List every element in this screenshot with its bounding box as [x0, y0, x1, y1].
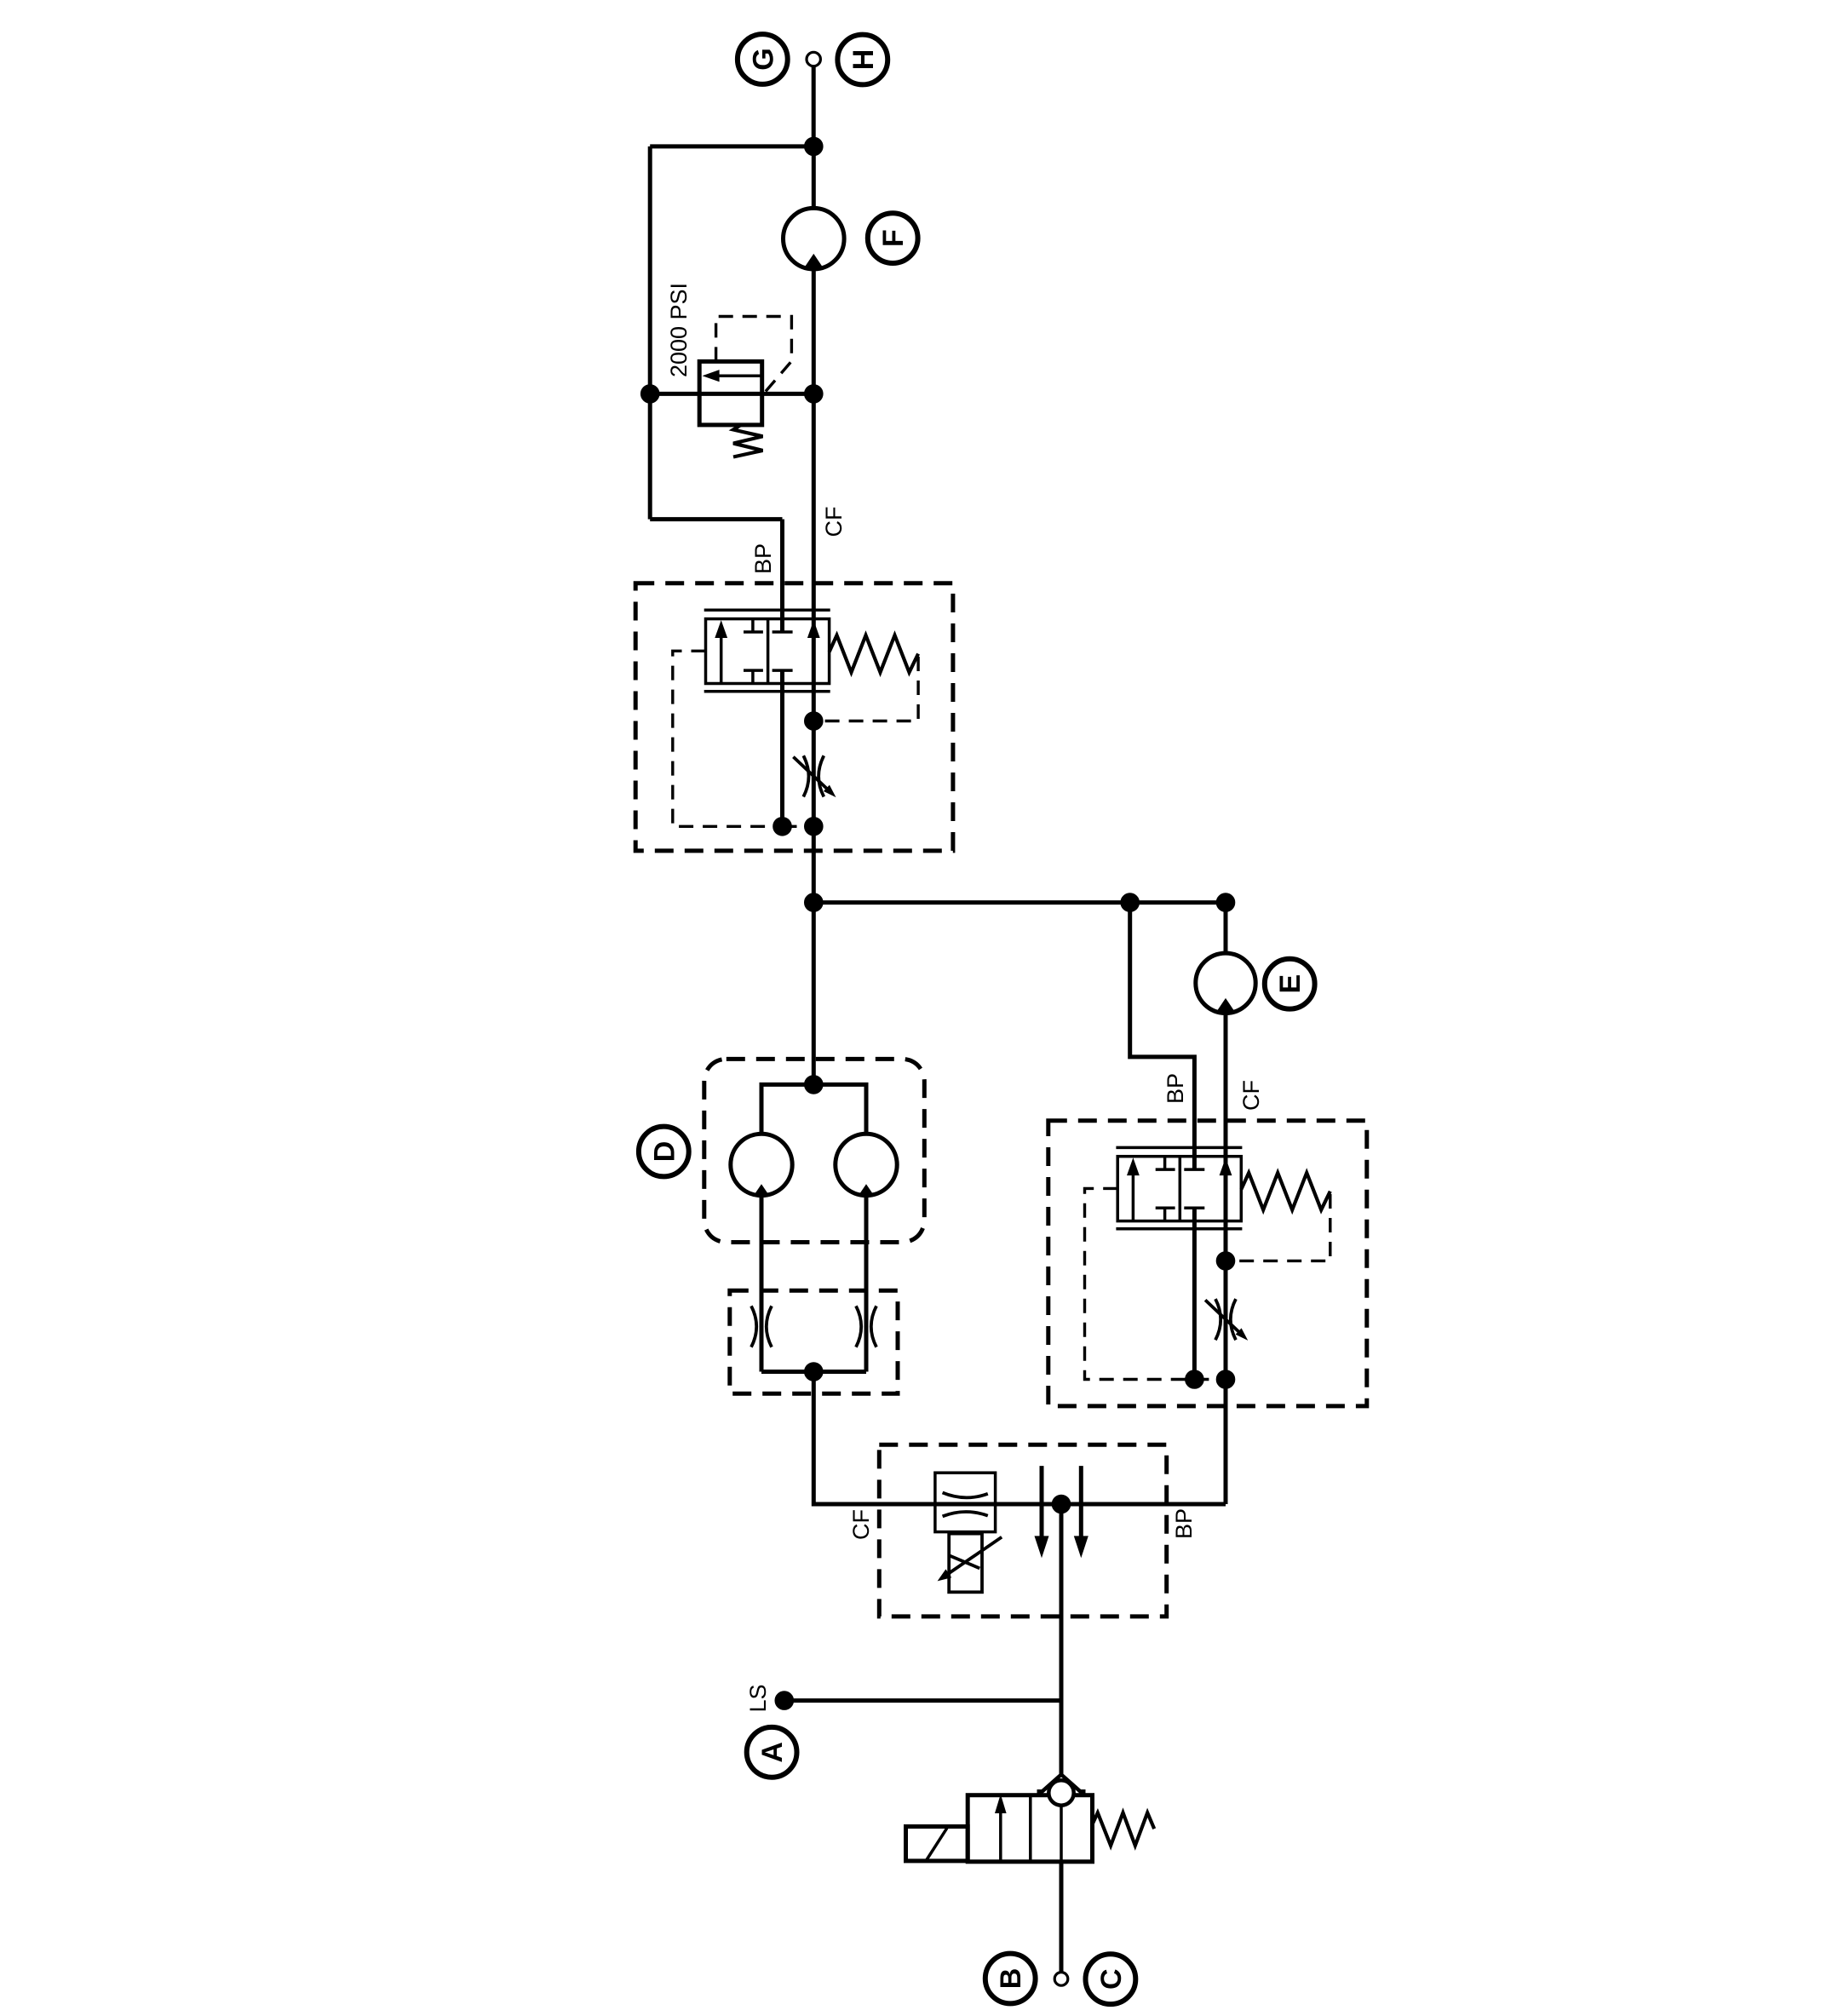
node LS tap	[777, 1693, 792, 1709]
orifice pair enclosure dashed box	[730, 1290, 898, 1393]
wire orifice outlet collector	[761, 1370, 866, 1374]
component label D	[639, 1127, 689, 1177]
solenoid valve envelope divider	[1029, 1795, 1032, 1862]
check valve ball	[1048, 1780, 1073, 1805]
node collector	[807, 1364, 822, 1380]
svg-text:CF: CF	[821, 507, 847, 537]
wire collector down elbow	[813, 1372, 1226, 1505]
node divider outlet	[1054, 1496, 1069, 1512]
valve F right cell BP port bar bottom	[773, 669, 793, 672]
wire CF line pump E to valve E	[1224, 1014, 1228, 1505]
fixed orifice left arcs	[751, 1306, 772, 1347]
valve E CF position arrow	[1220, 1157, 1232, 1175]
wire bypass branch elbow to BP	[650, 517, 782, 521]
cartridge orifice square	[935, 1473, 996, 1531]
node divider D inlet	[807, 1077, 822, 1093]
valve E left pilot dashed	[1085, 1188, 1188, 1379]
valve F CF position arrow	[807, 620, 820, 638]
variable orifice F arrow	[793, 757, 836, 798]
valve F body	[706, 619, 830, 684]
node relief left	[642, 387, 658, 402]
motor D left circle	[731, 1134, 792, 1195]
motor D right flow triangle	[858, 1184, 875, 1197]
wire BP drop into valve F upper	[780, 520, 784, 632]
valve E right cell BP port bar bottom	[1184, 1206, 1204, 1209]
svg-text:G: G	[747, 48, 779, 70]
svg-text:A: A	[756, 1742, 789, 1763]
cartridge orifice lower arc	[943, 1512, 988, 1516]
fixed orifice right arcs	[856, 1306, 876, 1347]
pump E flow triangle	[1216, 998, 1235, 1013]
valve E bottom pilot dashed link	[1194, 1378, 1226, 1381]
valve E left cell bottom blocked port	[1156, 1208, 1175, 1221]
wire down to flow divider D	[812, 903, 816, 1085]
wire divider outlet down to check valve	[1060, 1504, 1064, 1775]
node BP bottom valve E	[1187, 1372, 1203, 1387]
valve E left position arrow	[1127, 1157, 1140, 1220]
valve E spring	[1241, 1173, 1330, 1210]
node CF bottom valve E	[1218, 1372, 1233, 1387]
outlet arrow left	[1035, 1466, 1049, 1558]
variable orifice F arcs	[803, 755, 824, 796]
port label H	[837, 35, 887, 85]
port label A	[747, 1727, 797, 1778]
valve E pilot node on CF	[1218, 1254, 1233, 1269]
wire tee to bypass branch	[650, 144, 813, 148]
valve F proportional bar bottom	[704, 690, 830, 693]
wire motor D left outlet	[760, 1196, 764, 1372]
wire BP branch elbow to valve E	[1130, 903, 1195, 1170]
solenoid actuator diagonal	[927, 1828, 947, 1860]
valve F left pilot dashed	[673, 651, 776, 826]
valve E right cell BP port bar top	[1184, 1168, 1204, 1171]
valve F pilot node on CF	[807, 714, 822, 729]
wire bypass branch vertical	[648, 146, 652, 520]
pump F circle	[784, 208, 845, 269]
pump F flow triangle	[804, 254, 823, 268]
pump E circle	[1196, 953, 1255, 1013]
junction node at top tee	[807, 139, 822, 154]
port label G	[738, 34, 788, 84]
relief valve pilot dashed line	[716, 317, 792, 394]
component label F	[868, 213, 918, 263]
adjuster cross stroke	[950, 1556, 979, 1569]
port label B	[985, 1954, 1036, 2004]
valve F right cell BP port bar top	[773, 630, 793, 634]
motor D left flow triangle	[753, 1184, 770, 1197]
solenoid valve return spring	[1093, 1812, 1155, 1846]
valve F envelope divider	[767, 619, 770, 684]
valve F spring	[830, 635, 919, 673]
solenoid actuator box	[906, 1827, 968, 1861]
valve F left cell top blocked port	[744, 619, 763, 632]
svg-text:2000 PSI: 2000 PSI	[666, 283, 692, 377]
relief valve spring	[733, 425, 763, 457]
compensator E enclosure dashed box	[1048, 1121, 1367, 1406]
valve F left cell bottom blocked port	[744, 670, 763, 683]
wire motor D right outlet	[864, 1196, 869, 1372]
svg-text:LS: LS	[745, 1684, 771, 1712]
wire divider D header	[761, 1084, 866, 1134]
wire from port H down to junction	[812, 66, 816, 146]
cartridge orifice upper arc	[943, 1493, 988, 1498]
valve E proportional bar top	[1116, 1146, 1242, 1150]
valve F left position arrow	[715, 620, 727, 682]
solenoid valve right cell passage	[1060, 1804, 1063, 1862]
wire through relief valve	[650, 392, 813, 396]
node branch to pump E	[1218, 895, 1233, 910]
valve F proportional bar top	[704, 609, 830, 612]
valve E spring pilot dashed	[1232, 1194, 1330, 1261]
valve F spring pilot dashed	[821, 657, 919, 721]
node BP bottom valve F	[775, 819, 790, 835]
port label C	[1086, 1954, 1136, 2004]
wire main distribution line	[813, 900, 1226, 905]
wire junction to pump F	[812, 146, 816, 209]
wire CF main line from pump F down	[812, 269, 816, 903]
outlet arrow right	[1074, 1466, 1088, 1558]
component label E	[1265, 959, 1315, 1009]
valve E left cell top blocked port	[1156, 1157, 1175, 1169]
adjuster arrow	[938, 1537, 1002, 1582]
svg-text:CF: CF	[848, 1509, 874, 1540]
node main junction below valve F	[807, 895, 822, 910]
wire pump E feed	[1224, 903, 1228, 954]
priority divider enclosure dashed box	[879, 1445, 1166, 1617]
valve E envelope divider	[1179, 1157, 1182, 1221]
variable orifice E arrow	[1205, 1300, 1248, 1341]
check valve seat caret	[1037, 1775, 1086, 1792]
wire LS sense line	[784, 1698, 1061, 1703]
port H open circle	[807, 52, 820, 66]
svg-text:BP: BP	[750, 543, 776, 574]
svg-text:B: B	[995, 1968, 1027, 1990]
wire BP valve F lower	[780, 670, 784, 826]
wire solenoid valve outlet	[1060, 1862, 1064, 1973]
svg-text:H: H	[847, 49, 880, 71]
svg-text:F: F	[877, 229, 910, 247]
wire BP drop below valve E	[1192, 1208, 1197, 1379]
valve F bottom pilot dashed link	[783, 825, 814, 828]
adjuster stem rectangle	[949, 1534, 982, 1593]
solenoid valve body	[968, 1795, 1092, 1862]
solenoid valve left position arrow	[995, 1795, 1007, 1861]
outlet open circle	[1054, 1973, 1068, 1986]
relief valve flow arrow	[703, 370, 761, 382]
motor D right circle	[836, 1134, 897, 1195]
svg-text:E: E	[1274, 974, 1307, 994]
svg-text:BP: BP	[1171, 1508, 1197, 1539]
svg-text:D: D	[648, 1141, 681, 1163]
node relief right	[807, 387, 822, 402]
valve E proportional bar bottom	[1116, 1227, 1242, 1231]
node branch to valve E BP	[1123, 895, 1138, 910]
flow divider D enclosure dashed box	[704, 1059, 925, 1242]
node CF bottom valve F	[807, 819, 822, 835]
svg-text:CF: CF	[1238, 1080, 1264, 1111]
svg-text:C: C	[1095, 1968, 1128, 1990]
compensator F enclosure dashed box	[635, 583, 953, 851]
valve E body	[1117, 1157, 1241, 1221]
svg-text:BP: BP	[1163, 1073, 1188, 1104]
relief valve body	[699, 361, 762, 425]
variable orifice E arcs	[1215, 1299, 1236, 1340]
